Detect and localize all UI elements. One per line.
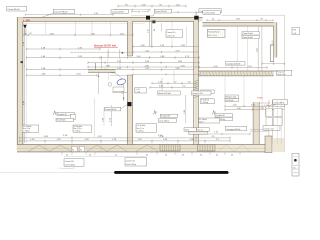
- svg-text:Lásd: 1.08: Lásd: 1.08: [167, 36, 175, 38]
- svg-text:F-L 08 ablak: F-L 08 ablak: [23, 126, 32, 128]
- svg-text:Csomó 08 felé: Csomó 08 felé: [8, 9, 20, 11]
- svg-text:90: 90: [80, 149, 82, 151]
- svg-text:Csomó 03 felé: Csomó 03 felé: [155, 11, 167, 13]
- svg-text:85: 85: [261, 19, 263, 21]
- svg-text:Aszott 2.08 felé: Aszott 2.08 felé: [159, 92, 171, 95]
- svg-text:90: 90: [154, 29, 156, 31]
- svg-text:1,08 m: 1,08 m: [264, 105, 271, 107]
- svg-text:2,01: 2,01: [257, 48, 259, 52]
- svg-text:1,3: 1,3: [115, 155, 118, 157]
- svg-text:Csomó 08 felé: Csomó 08 felé: [204, 12, 216, 14]
- svg-text:F-L 08 ablak: F-L 08 ablak: [137, 125, 146, 127]
- svg-text:Csom 06 felé: Csom 06 felé: [243, 37, 253, 39]
- svg-text:F-08 j: F-08 j: [257, 97, 263, 99]
- svg-text:F-al 08 jelű: F-al 08 jelű: [226, 100, 234, 102]
- svg-text:90: 90: [72, 149, 74, 151]
- svg-text:L 1.8: L 1.8: [293, 33, 297, 35]
- svg-text:Hsz: 2,1 m: Hsz: 2,1 m: [137, 128, 145, 130]
- svg-text:Metszet 08 RR felé: Metszet 08 RR felé: [94, 43, 117, 47]
- svg-text:Hsz: 0,9 m: Hsz: 0,9 m: [23, 128, 31, 130]
- svg-text:Csomó 02 RR f.: Csomó 02 RR f.: [112, 11, 125, 13]
- svg-text:3,80: 3,80: [236, 19, 240, 21]
- svg-text:45: 45: [216, 155, 218, 157]
- svg-text:F-L 08 ablak: F-L 08 ablak: [74, 126, 83, 128]
- svg-text:Lásd: 1.08 t: Lásd: 1.08 t: [277, 73, 286, 76]
- svg-text:45: 45: [66, 155, 68, 157]
- svg-text:L: 108 lap: L: 108 lap: [74, 131, 81, 133]
- svg-text:L:1.08: L:1.08: [136, 91, 140, 93]
- svg-text:Csomó 08 felé: Csomó 08 felé: [273, 102, 284, 104]
- svg-text:Lásd: 1.08 lap: Lásd: 1.08 lap: [65, 164, 75, 166]
- svg-text:Csomó 08 j: Csomó 08 j: [167, 32, 176, 34]
- svg-text:L-08: L-08: [23, 18, 30, 22]
- svg-text:Csomópont 08 felé: Csomópont 08 felé: [226, 62, 240, 65]
- svg-text:55: 55: [200, 155, 202, 157]
- svg-text:45: 45: [89, 155, 91, 157]
- svg-text:Lásd: 108 lap: Lásd: 108 lap: [159, 121, 169, 123]
- svg-text:60: 60: [182, 155, 184, 157]
- svg-text:90/2,1: 90/2,1: [185, 129, 190, 131]
- svg-text:L: 108 lap: L: 108 lap: [137, 131, 144, 133]
- svg-text:Csomópont 08 felé: Csomópont 08 felé: [226, 128, 240, 131]
- svg-text:Hsz 2,1: Hsz 2,1: [198, 129, 204, 131]
- svg-text:1 : 50 méretarány M: 1 : 50 méretarány M: [57, 167, 75, 170]
- svg-text:Csomó 1.08: Csomó 1.08: [126, 160, 135, 162]
- svg-text:F-al 08 jelű: F-al 08 jelű: [201, 100, 209, 102]
- svg-text:L: 108 lap: L: 108 lap: [23, 131, 30, 133]
- svg-text:60: 60: [146, 155, 148, 157]
- svg-text:Cs 08: Cs 08: [136, 89, 140, 91]
- svg-text:Homlokz. falak: Homlokz. falak: [226, 96, 237, 98]
- svg-text:Csomó 4 RR felé: Csomó 4 RR felé: [54, 12, 68, 14]
- svg-text:1:5: 1:5: [293, 167, 295, 169]
- svg-text:55: 55: [165, 155, 167, 157]
- svg-text:F-ablak 08 jelű: F-ablak 08 jelű: [208, 31, 219, 33]
- svg-text:Lásd: 1.08 lap: Lásd: 1.08 lap: [126, 164, 136, 166]
- svg-text:1,10: 1,10: [148, 29, 150, 33]
- svg-text:Csomó 08 felé: Csomó 08 felé: [105, 109, 116, 111]
- svg-text:2,98: 2,98: [184, 110, 186, 114]
- svg-text:Csomó 1:10 f.: Csomó 1:10 f.: [264, 128, 275, 130]
- svg-text:Csom 05 felé: Csom 05 felé: [243, 33, 253, 35]
- svg-text:L: 108 lap: L: 108 lap: [201, 102, 208, 104]
- svg-text:90/2,1: 90/2,1: [199, 121, 204, 123]
- svg-text:Hsz: 2,10 m: Hsz: 2,10 m: [74, 128, 83, 130]
- svg-text:Csomó 1.08 f: Csomó 1.08 f: [192, 93, 203, 95]
- svg-text:Csomó 3.08: Csomó 3.08: [65, 161, 74, 163]
- svg-text:1,10: 1,10: [214, 132, 218, 134]
- svg-text:40: 40: [231, 155, 233, 157]
- svg-text:45: 45: [212, 19, 214, 21]
- svg-text:F 08: F 08: [293, 29, 296, 31]
